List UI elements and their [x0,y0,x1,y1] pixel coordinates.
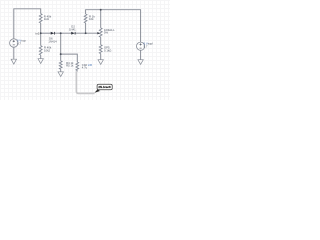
svg-text:10k: 10k [89,17,94,21]
svg-text:2N.brac8: 2N.brac8 [98,85,111,89]
svg-text:1N41: 1N41 [69,27,76,31]
svg-text:0.1kΩ: 0.1kΩ [104,48,111,52]
svg-text:10k2: 10k2 [44,48,51,52]
svg-text:R5 1k: R5 1k [66,63,74,67]
svg-text:0.7: 0.7 [17,42,21,46]
svg-text:4.7u: 4.7u [82,65,88,69]
svg-text:5%: 5% [104,31,109,35]
svg-text:5.7: 5.7 [144,44,148,48]
svg-text:1N414: 1N414 [48,40,57,44]
svg-text:1kΩ: 1kΩ [44,17,49,21]
svg-text:in1: in1 [36,31,40,35]
